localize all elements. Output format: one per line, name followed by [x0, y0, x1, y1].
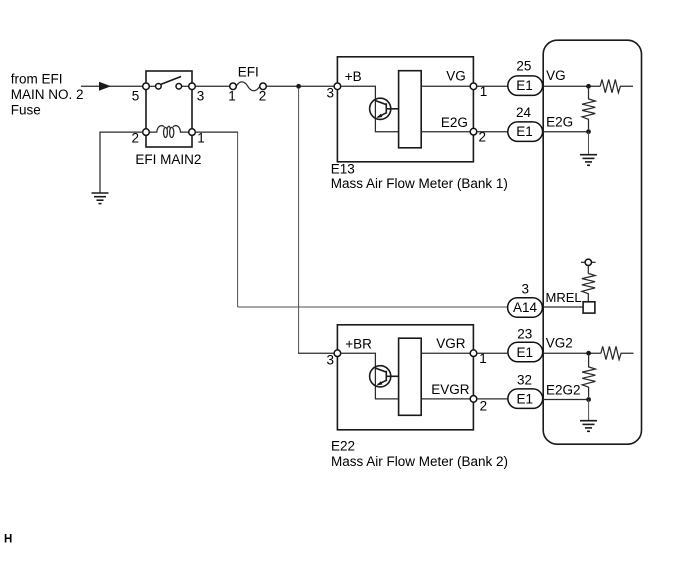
label +B: [345, 69, 362, 84]
wire: E13 internal VG: [421, 85, 470, 87]
svg-text:MAIN NO. 2: MAIN NO. 2: [11, 87, 84, 102]
relay switch contact pin 3: [189, 83, 196, 90]
svg-text:E1: E1: [516, 78, 533, 93]
pin number 5: [132, 89, 140, 104]
pin number 24: [516, 105, 532, 120]
fuse terminal 1: [230, 83, 237, 90]
wire: E22 internal +BR: [341, 353, 399, 399]
label +BR: [345, 337, 372, 352]
relay coil pin 2: [143, 129, 150, 136]
ECM box: [543, 40, 641, 444]
svg-text:3: 3: [197, 89, 205, 104]
svg-text:+BR: +BR: [345, 337, 372, 352]
wire: E22 pin1 to connector E1-23: [477, 352, 508, 354]
svg-text:EFI MAIN2: EFI MAIN2: [135, 152, 201, 167]
junction: E2G node: [586, 129, 591, 134]
relay driver block (MREL square): [583, 302, 595, 313]
wire: relay pin 3 to fuse: [195, 85, 230, 87]
junction: VG node: [586, 84, 591, 89]
svg-text:3: 3: [326, 353, 334, 368]
svg-text:2: 2: [480, 398, 488, 413]
svg-text:E1: E1: [516, 392, 533, 407]
svg-text:E2G: E2G: [441, 115, 468, 130]
label VGR (E22): [436, 336, 466, 351]
relay coil pin 1: [189, 129, 196, 136]
svg-text:E1: E1: [516, 345, 533, 360]
label VG2 (ECM): [546, 336, 573, 351]
label VG (ECM): [546, 68, 566, 83]
wire: E22 internal EVGR: [421, 398, 470, 400]
svg-text:5: 5: [132, 89, 140, 104]
svg-text:from EFI: from EFI: [11, 72, 63, 87]
connector E1 pin 23: [508, 342, 543, 362]
label H (page marker): [4, 534, 12, 546]
svg-text:3: 3: [326, 85, 334, 100]
label E13: [331, 162, 355, 177]
label Mass Air Flow Meter (Bank 1): [331, 176, 508, 191]
relay coil: [149, 126, 188, 138]
resistor (VG pull, horizontal): [600, 80, 633, 93]
mass air flow meter E13 box: [337, 57, 473, 162]
relay switch inner contact left: [156, 84, 162, 90]
label E2G (ECM): [546, 115, 573, 130]
label MREL: [546, 290, 582, 305]
pin number 23: [517, 327, 532, 342]
label E2G (E13): [441, 115, 468, 130]
svg-text:3: 3: [522, 281, 530, 296]
wire: source feed into relay pin 5: [81, 85, 146, 87]
E13 pin 2 (E2G): [470, 128, 477, 135]
svg-text:E1: E1: [516, 124, 533, 139]
pin number 3 (E22): [326, 353, 334, 368]
E13 pin 1 (VG): [470, 83, 477, 90]
E22 pin 3 (+BR): [334, 350, 341, 357]
svg-text:VGR: VGR: [436, 336, 466, 351]
fuse EFI: [236, 82, 260, 91]
fuse terminal 2: [260, 83, 267, 90]
label EFI (fuse): [238, 65, 259, 80]
wire: E13 internal E2G: [421, 131, 470, 133]
svg-text:Fuse: Fuse: [11, 103, 41, 118]
wire: fuse to E13 pin 3: [266, 85, 334, 87]
E13 sensing element rectangle: [399, 71, 422, 148]
svg-text:1: 1: [197, 131, 205, 146]
svg-text:+B: +B: [345, 69, 362, 84]
E13 pin 3 (+B): [334, 83, 341, 90]
label VG (E13): [446, 69, 466, 84]
connector E1 pin 32: [508, 389, 543, 409]
wire: relay switch stubs: [146, 85, 192, 87]
pin number 3 (E13): [326, 85, 334, 100]
svg-text:Mass Air Flow Meter (Bank 1): Mass Air Flow Meter (Bank 1): [331, 176, 508, 191]
svg-text:VG: VG: [446, 69, 466, 84]
wire: VG inside ECM: [543, 85, 600, 87]
wire: E13 pin1 to connector E1-25: [477, 85, 508, 87]
relay switch contact pin 5: [143, 83, 150, 90]
pin number 1 (relay): [197, 131, 205, 146]
svg-text:H: H: [4, 534, 12, 546]
wire: E2G2 inside ECM: [543, 399, 589, 401]
svg-text:Mass Air Flow Meter (Bank 2): Mass Air Flow Meter (Bank 2): [331, 454, 508, 469]
relay EFI MAIN2 box: [146, 71, 192, 147]
label EVGR (E22): [431, 382, 470, 397]
pin number 2 (fuse): [259, 89, 267, 104]
label E2G2 (ECM): [546, 382, 581, 397]
pin number 1 (fuse): [228, 89, 236, 104]
svg-text:VG2: VG2: [546, 336, 573, 351]
wire: VG2 inside ECM: [543, 352, 601, 354]
power symbol (battery feed, MREL): [581, 259, 596, 273]
ground (left, relay coil): [92, 193, 109, 204]
svg-text:25: 25: [516, 59, 531, 74]
wire: relay pin 2 to ground: [100, 132, 143, 193]
pin number 2 (E13): [479, 130, 487, 145]
junction: VG2 node: [586, 351, 591, 356]
pin number 25: [516, 59, 531, 74]
label E22: [331, 439, 355, 454]
wire: +B feed down to E22 pin 3: [298, 89, 334, 354]
svg-text:VG: VG: [546, 68, 566, 83]
pin number 3 (relay): [197, 89, 205, 104]
resistor (VG-E2G divider, vertical): [582, 89, 595, 130]
E22 sensing element rectangle: [399, 338, 422, 415]
transistor Q2 (E22): [370, 366, 399, 387]
wire: relay pin 1 to MREL (A14): [195, 132, 507, 307]
relay switch blade: [161, 77, 182, 85]
pin number 32: [517, 373, 532, 388]
mass air flow meter E22 box: [337, 325, 473, 430]
wire: E2G2 node to ground: [588, 400, 590, 421]
connector E1 pin 24: [508, 122, 543, 141]
E22 pin 1 (VGR): [470, 350, 477, 357]
pin number 1 (E22): [479, 351, 487, 366]
relay switch inner contact right: [176, 84, 182, 90]
node: from EFI MAIN NO. 2 Fuse label: [11, 72, 84, 118]
pin number 2 (E22): [480, 398, 488, 413]
pin number 3 (A14): [522, 281, 530, 296]
svg-text:E2G2: E2G2: [546, 382, 581, 397]
wire: E22 internal VGR: [421, 352, 470, 354]
svg-text:E22: E22: [331, 439, 355, 454]
wire: E22 pin2 to connector E1-32: [477, 398, 508, 400]
connector E1 pin 25: [508, 76, 543, 96]
svg-text:EVGR: EVGR: [431, 382, 470, 397]
svg-text:24: 24: [516, 105, 532, 120]
E22 pin 2 (EVGR): [470, 396, 477, 403]
resistor (VG2-E2G2 divider, vertical): [582, 356, 595, 397]
svg-text:2: 2: [259, 89, 267, 104]
svg-text:MREL: MREL: [546, 290, 582, 305]
transistor Q1 (E13): [370, 98, 399, 119]
svg-text:EFI: EFI: [238, 65, 259, 80]
resistor (VG2 pull, horizontal): [601, 346, 634, 359]
label EFI MAIN2: [135, 152, 201, 167]
wire: E2G node to ground: [588, 132, 590, 155]
connector A14 pin 3: [508, 298, 543, 318]
label Mass Air Flow Meter (Bank 2): [331, 454, 508, 469]
wire: MREL to connector A14: [543, 306, 584, 308]
svg-text:E2G: E2G: [546, 115, 573, 130]
junction: +B feed node: [296, 84, 301, 89]
svg-text:E13: E13: [331, 162, 355, 177]
wire: E2G inside ECM: [543, 131, 588, 133]
pin number 1 (E13): [480, 84, 488, 99]
junction: E2G2 node: [586, 397, 591, 402]
wire: E13 internal +B: [341, 86, 399, 131]
pin number 2 (relay): [131, 130, 139, 145]
ground (ECM, E2G): [580, 155, 597, 166]
svg-text:1: 1: [228, 89, 236, 104]
ground (ECM, E2G2): [580, 421, 597, 432]
resistor (MREL pull-up, vertical): [582, 273, 595, 301]
svg-text:32: 32: [517, 373, 532, 388]
arrow: current-flow arrowhead: [99, 82, 111, 91]
svg-text:23: 23: [517, 327, 532, 342]
svg-text:A14: A14: [513, 300, 538, 315]
wire: E13 pin2 to connector E1-24: [477, 131, 508, 133]
